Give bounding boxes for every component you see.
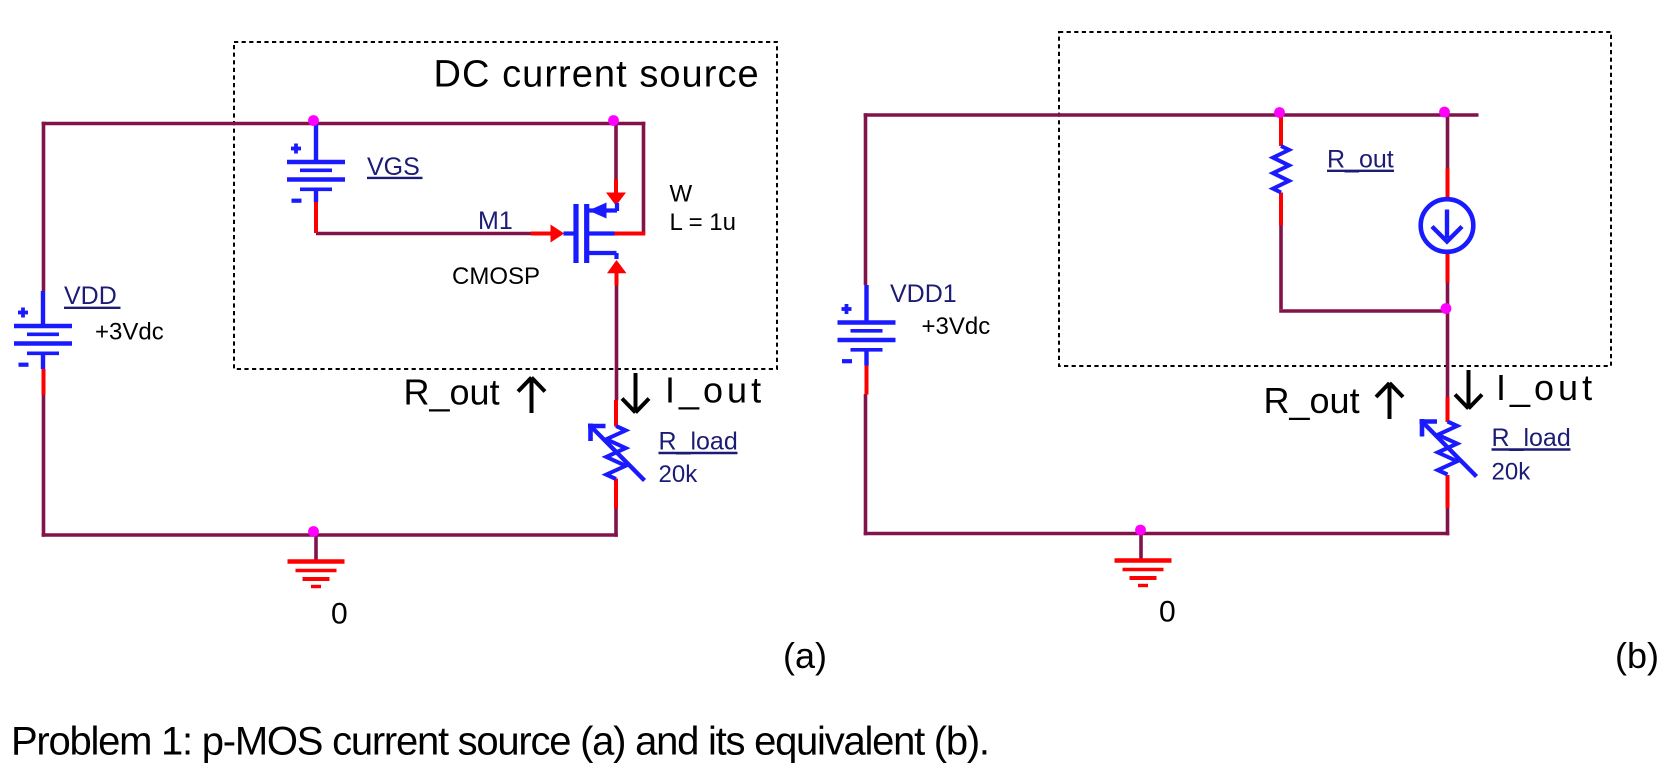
svg-text:R_load: R_load [1492,424,1571,452]
svg-text:R_out: R_out [404,372,500,413]
svg-text:CMOSP: CMOSP [452,263,540,290]
svg-text:Problem 1: p-MOS current sourc: Problem 1: p-MOS current source (a) and … [11,720,989,764]
svg-text:M1: M1 [478,207,513,235]
svg-text:+3Vdc: +3Vdc [922,313,991,340]
svg-text:I_out: I_out [665,370,765,411]
svg-text:I_out: I_out [1496,367,1596,408]
svg-text:+3Vdc: +3Vdc [95,319,164,346]
svg-text:20k: 20k [1492,459,1532,486]
svg-text:0: 0 [331,598,348,631]
svg-text:R_load: R_load [659,428,738,456]
svg-text:(b): (b) [1615,635,1659,676]
svg-text:VDD: VDD [64,282,117,310]
svg-text:(a): (a) [783,635,827,676]
svg-text:L = 1u: L = 1u [670,209,737,236]
svg-text:20k: 20k [659,461,699,488]
svg-text:W: W [670,181,693,208]
svg-text:DC current source: DC current source [434,54,760,96]
svg-text:VDD1: VDD1 [890,280,957,308]
svg-text:0: 0 [1159,596,1176,629]
svg-text:R_out: R_out [1264,380,1360,421]
svg-text:R_out: R_out [1327,146,1394,174]
